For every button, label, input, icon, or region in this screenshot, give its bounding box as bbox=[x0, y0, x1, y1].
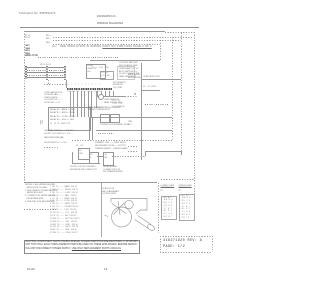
wire W3 label bbox=[46, 42, 51, 44]
short dashed rows left of cluster bbox=[128, 146, 138, 147]
connector label block top-left bbox=[25, 35, 30, 39]
footer page code bbox=[27, 268, 35, 271]
relay box B label bbox=[90, 154, 93, 159]
wire pin drop P7 bbox=[91, 91, 92, 117]
left-of-141 label column bbox=[128, 74, 141, 79]
wire W3 bbox=[53, 44, 160, 45]
oven control board pin strip bbox=[67, 88, 113, 90]
pin wire color row bbox=[68, 92, 101, 94]
drop wire from junction bbox=[48, 80, 49, 84]
connector box label bbox=[101, 72, 109, 77]
riser to board bbox=[66, 80, 67, 88]
top text bits bbox=[92, 68, 109, 70]
wire into C bbox=[97, 156, 104, 157]
inner dashed right edge bbox=[160, 43, 161, 61]
notes column bbox=[25, 184, 57, 204]
harness bundle wire 1 bbox=[27, 67, 66, 68]
dots node bbox=[36, 100, 39, 102]
header title WIRING DIAGRAM bbox=[97, 22, 123, 25]
right label column (fan/light) bbox=[119, 62, 139, 79]
wire pin drop P1 bbox=[70, 91, 71, 118]
dotted leader band bbox=[38, 57, 118, 58]
fan label outline bbox=[117, 66, 136, 80]
small connector box top bbox=[100, 71, 114, 80]
terminal grid table 2 header bbox=[179, 185, 192, 193]
harness bundle wire 4 bbox=[27, 75, 66, 76]
relay box text bbox=[50, 109, 75, 127]
transformer box C label bbox=[105, 154, 108, 159]
relay box B bbox=[89, 152, 99, 164]
notes dash row bbox=[24, 209, 56, 210]
wire W1 label bbox=[46, 35, 51, 37]
cluster top label bbox=[76, 145, 83, 147]
wire pin drop P2 bbox=[73, 91, 74, 118]
dashed wire right bbox=[112, 156, 145, 157]
dark label row bbox=[44, 137, 63, 139]
header rule bbox=[20, 27, 200, 28]
wire pin drop P5 bbox=[84, 91, 85, 117]
diagram top border dashed bbox=[165, 32, 194, 33]
relay sub box bbox=[48, 107, 91, 131]
terminal grid table 1 header bbox=[161, 185, 175, 193]
harness bundle wire 3 bbox=[27, 72, 66, 73]
bus dashes right bbox=[125, 96, 138, 97]
wire pin drop P3 bbox=[77, 91, 78, 117]
wire sensor drop S3 bbox=[105, 91, 106, 97]
right outer dashed border bbox=[194, 32, 195, 218]
dashes bbox=[44, 147, 58, 148]
harness junction mid bbox=[46, 66, 48, 80]
wire sensor drop S2 bbox=[101, 91, 102, 97]
bottom dashed vertical x157 bbox=[158, 183, 159, 233]
wire sensor drop S4 bbox=[109, 91, 110, 97]
dashed vertical x181 bbox=[181, 33, 182, 151]
dashed horizontal above grids bbox=[161, 179, 194, 180]
dashed bottom of inner box bbox=[72, 140, 172, 141]
hbar y60 bbox=[90, 60, 160, 61]
cluster wire baseline bbox=[72, 163, 100, 164]
wire sensor drop S1 bbox=[97, 91, 98, 97]
bus with sensor circle bbox=[96, 96, 125, 97]
lower bus label bbox=[100, 124, 129, 126]
harness labels bbox=[40, 64, 51, 66]
harness bundle wire 5 bbox=[27, 77, 66, 78]
lower label rows bbox=[44, 130, 74, 135]
revision text bbox=[163, 239, 202, 251]
parts list table bbox=[50, 186, 80, 235]
wire step bbox=[145, 151, 146, 156]
dashed vertical x172 bbox=[172, 37, 173, 141]
component box text bbox=[88, 65, 96, 73]
revision box bbox=[160, 236, 212, 252]
wire sensor drop S5 bbox=[113, 91, 114, 97]
label row bbox=[44, 102, 60, 104]
dotted under bus bbox=[98, 133, 114, 134]
left dashed border bbox=[24, 31, 25, 182]
terminal grid table 1 bbox=[161, 196, 178, 221]
meat probe caption bbox=[102, 188, 120, 196]
cluster left riser bbox=[72, 152, 73, 163]
element bus lower bbox=[96, 130, 172, 131]
phi symbol bbox=[134, 94, 136, 97]
notes table top border bbox=[24, 182, 157, 183]
label row bbox=[44, 142, 68, 144]
wire W2 label bbox=[46, 38, 51, 40]
harness junction right bbox=[64, 66, 66, 80]
caution text bbox=[26, 241, 139, 252]
wire down right of relay box 2 bbox=[91, 117, 94, 140]
relay box A label bbox=[80, 150, 83, 155]
transformer cluster label rows bbox=[95, 142, 128, 150]
caution note box bbox=[24, 240, 140, 255]
harness bundle wire 2 bbox=[27, 70, 66, 71]
bracket label left bbox=[40, 121, 43, 125]
broil element box bbox=[110, 114, 120, 124]
bake element box bbox=[100, 114, 110, 124]
cluster captions left bbox=[70, 166, 97, 171]
relay box A bbox=[78, 148, 90, 160]
latch assembly drawing bbox=[0, 0, 218, 285]
leader to board bbox=[44, 84, 67, 85]
component box upper mid bbox=[86, 64, 106, 79]
solid wire right bbox=[145, 151, 181, 152]
wire down from board left bbox=[96, 91, 97, 109]
vertical main x141 bbox=[141, 63, 142, 160]
sensor circle bbox=[98, 94, 104, 100]
header model number bbox=[97, 16, 117, 19]
corner down at 181 bbox=[181, 151, 182, 155]
14GA wire note band bbox=[25, 55, 38, 58]
board left labels bbox=[44, 92, 64, 102]
element bus upper bbox=[89, 117, 172, 118]
dotted y104 bbox=[145, 104, 168, 105]
wire W4 label bbox=[52, 46, 57, 48]
wire pin drop P6 bbox=[88, 91, 89, 117]
cluster captions right bbox=[103, 166, 123, 174]
right mid labels bbox=[143, 76, 160, 78]
transformer box C bbox=[103, 152, 114, 166]
right scattered labels bbox=[112, 100, 124, 108]
board pin numbers bbox=[68, 85, 103, 87]
insulation note bbox=[60, 46, 152, 49]
TRH label bbox=[128, 121, 132, 125]
harness connector left bbox=[25, 66, 27, 79]
element bus labels bbox=[88, 107, 121, 109]
labels mid cluster bbox=[88, 107, 110, 112]
wire down right of relay box bbox=[88, 117, 91, 140]
hbar segment x141-181 bbox=[141, 79, 181, 80]
terminal grid table 2 bbox=[179, 194, 196, 222]
table divider vertical bbox=[101, 183, 102, 237]
connector label column bbox=[26, 45, 31, 58]
hbar segment x141-160 bbox=[141, 90, 160, 91]
board right labels row1 bbox=[113, 82, 125, 89]
diagram top border solid bbox=[24, 31, 165, 32]
footer page number bbox=[104, 268, 107, 271]
header publication number bbox=[19, 13, 56, 16]
wire W1 bbox=[53, 37, 193, 38]
wire pin drop P4 bbox=[81, 91, 82, 117]
wire W2 bbox=[53, 40, 181, 41]
board right labels cluster bbox=[104, 99, 123, 104]
